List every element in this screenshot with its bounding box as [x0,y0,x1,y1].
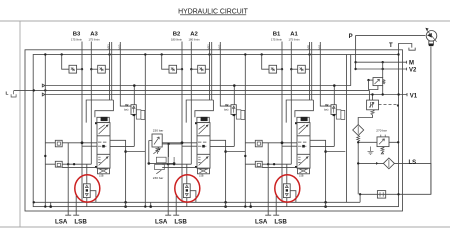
pump [426,31,437,42]
left arm [149,141,152,164]
node L gallery [44,89,46,91]
svg-text:180 l/min: 180 l/min [171,37,182,41]
shuttle diamond upper [353,125,364,136]
plug symbol [368,147,374,155]
wire diamond down [357,141,359,194]
svg-text:VB3: VB3 [106,44,110,50]
svg-text:175 l/min: 175 l/min [271,37,282,41]
svg-text:VA3: VA3 [117,44,121,49]
LS line [358,162,383,164]
node V2 x382 [382,68,384,70]
svg-text:230 bar: 230 bar [153,176,164,180]
section 2 [144,42,245,226]
stub V2 [399,68,407,71]
svg-text:L: L [6,90,9,96]
node upper right [167,143,169,145]
svg-text:B3: B3 [73,32,81,38]
svg-text:VA1: VA1 [317,44,321,49]
node P-V2 [354,68,356,70]
right arm [169,144,175,164]
page frame bottom [0,226,450,228]
compensator pilot dashes [379,104,397,106]
node bottom rail left [33,201,35,203]
orifice block bottom [377,191,385,199]
node P-M [354,61,356,63]
svg-text:230 bar: 230 bar [153,129,164,133]
svg-text:180 l/min: 180 l/min [189,37,200,41]
compensator valve [367,100,379,110]
reducer out down [382,86,384,95]
relief 270 [377,137,389,147]
stub V1 [399,93,408,96]
rail lower [42,93,398,96]
section 3 [44,42,145,226]
node cross right [173,162,176,165]
svg-text:175 l/min: 175 l/min [89,37,100,41]
svg-text:V1: V1 [410,93,418,99]
stub M [399,61,407,64]
rail P upper [42,55,350,87]
outer enclosure box [25,50,403,211]
relief cluster section 2 [148,129,183,180]
wire left gallery right block [346,55,348,203]
rail bottom dotted [34,201,360,203]
lower valve arrow [156,170,161,174]
page frame top [0,20,450,22]
relief valve upper [152,134,162,147]
node drain edge [397,193,399,195]
wire M internal [356,61,399,63]
svg-text:LS: LS [409,160,417,166]
node cross left [148,162,151,165]
reducer loop [369,80,378,89]
svg-text:A1: A1 [290,32,298,38]
port L symbol [11,90,16,97]
svg-text:T: T [389,43,393,49]
cross line [149,162,174,164]
svg-text:VA2: VA2 [217,44,221,49]
reducer valve [373,78,383,86]
feed branch left [369,79,374,81]
node V1 edge [397,93,399,95]
pump drain line [360,46,431,194]
wire x382 drop [382,62,384,77]
node M x382 [382,61,384,63]
svg-text:P: P [349,34,353,40]
upper right wire [162,143,182,145]
svg-text:V2: V2 [409,68,417,74]
LS out [394,163,431,194]
node drain left [359,193,361,195]
dark arrow over spring [153,149,159,154]
spring below upper [156,147,159,154]
svg-text:175 l/min: 175 l/min [71,37,82,41]
middle box below [155,164,165,169]
compensator spring below [371,110,374,115]
node reducer rail [382,93,384,95]
svg-text:A3: A3 [90,32,98,38]
svg-text:M: M [409,61,414,67]
port T symbol [399,44,416,55]
wire V2 internal [356,68,399,70]
svg-text:VB2: VB2 [206,44,210,50]
compensator top wire [372,95,374,101]
node T top [397,53,399,55]
rail L line [14,90,369,100]
relief wires [358,141,398,143]
wire P top to pump [356,35,426,69]
inner enclosure box [33,55,398,207]
LS diamond [383,158,394,169]
section 1 [244,42,345,226]
svg-text:VB1: VB1 [306,44,310,50]
svg-text:270 bar: 270 bar [376,129,387,133]
svg-text:B1: B1 [273,32,281,38]
diamond spring below [357,135,360,141]
svg-text:B2: B2 [173,32,181,38]
middle box above [156,157,166,163]
page frame left [19,21,21,227]
svg-text:175 l/min: 175 l/min [289,37,300,41]
wire bottom rail ending [359,194,361,202]
relief spring below [381,147,384,154]
node L inner edge [33,89,35,91]
comp to diamond [358,115,372,125]
svg-text:A2: A2 [190,32,198,38]
